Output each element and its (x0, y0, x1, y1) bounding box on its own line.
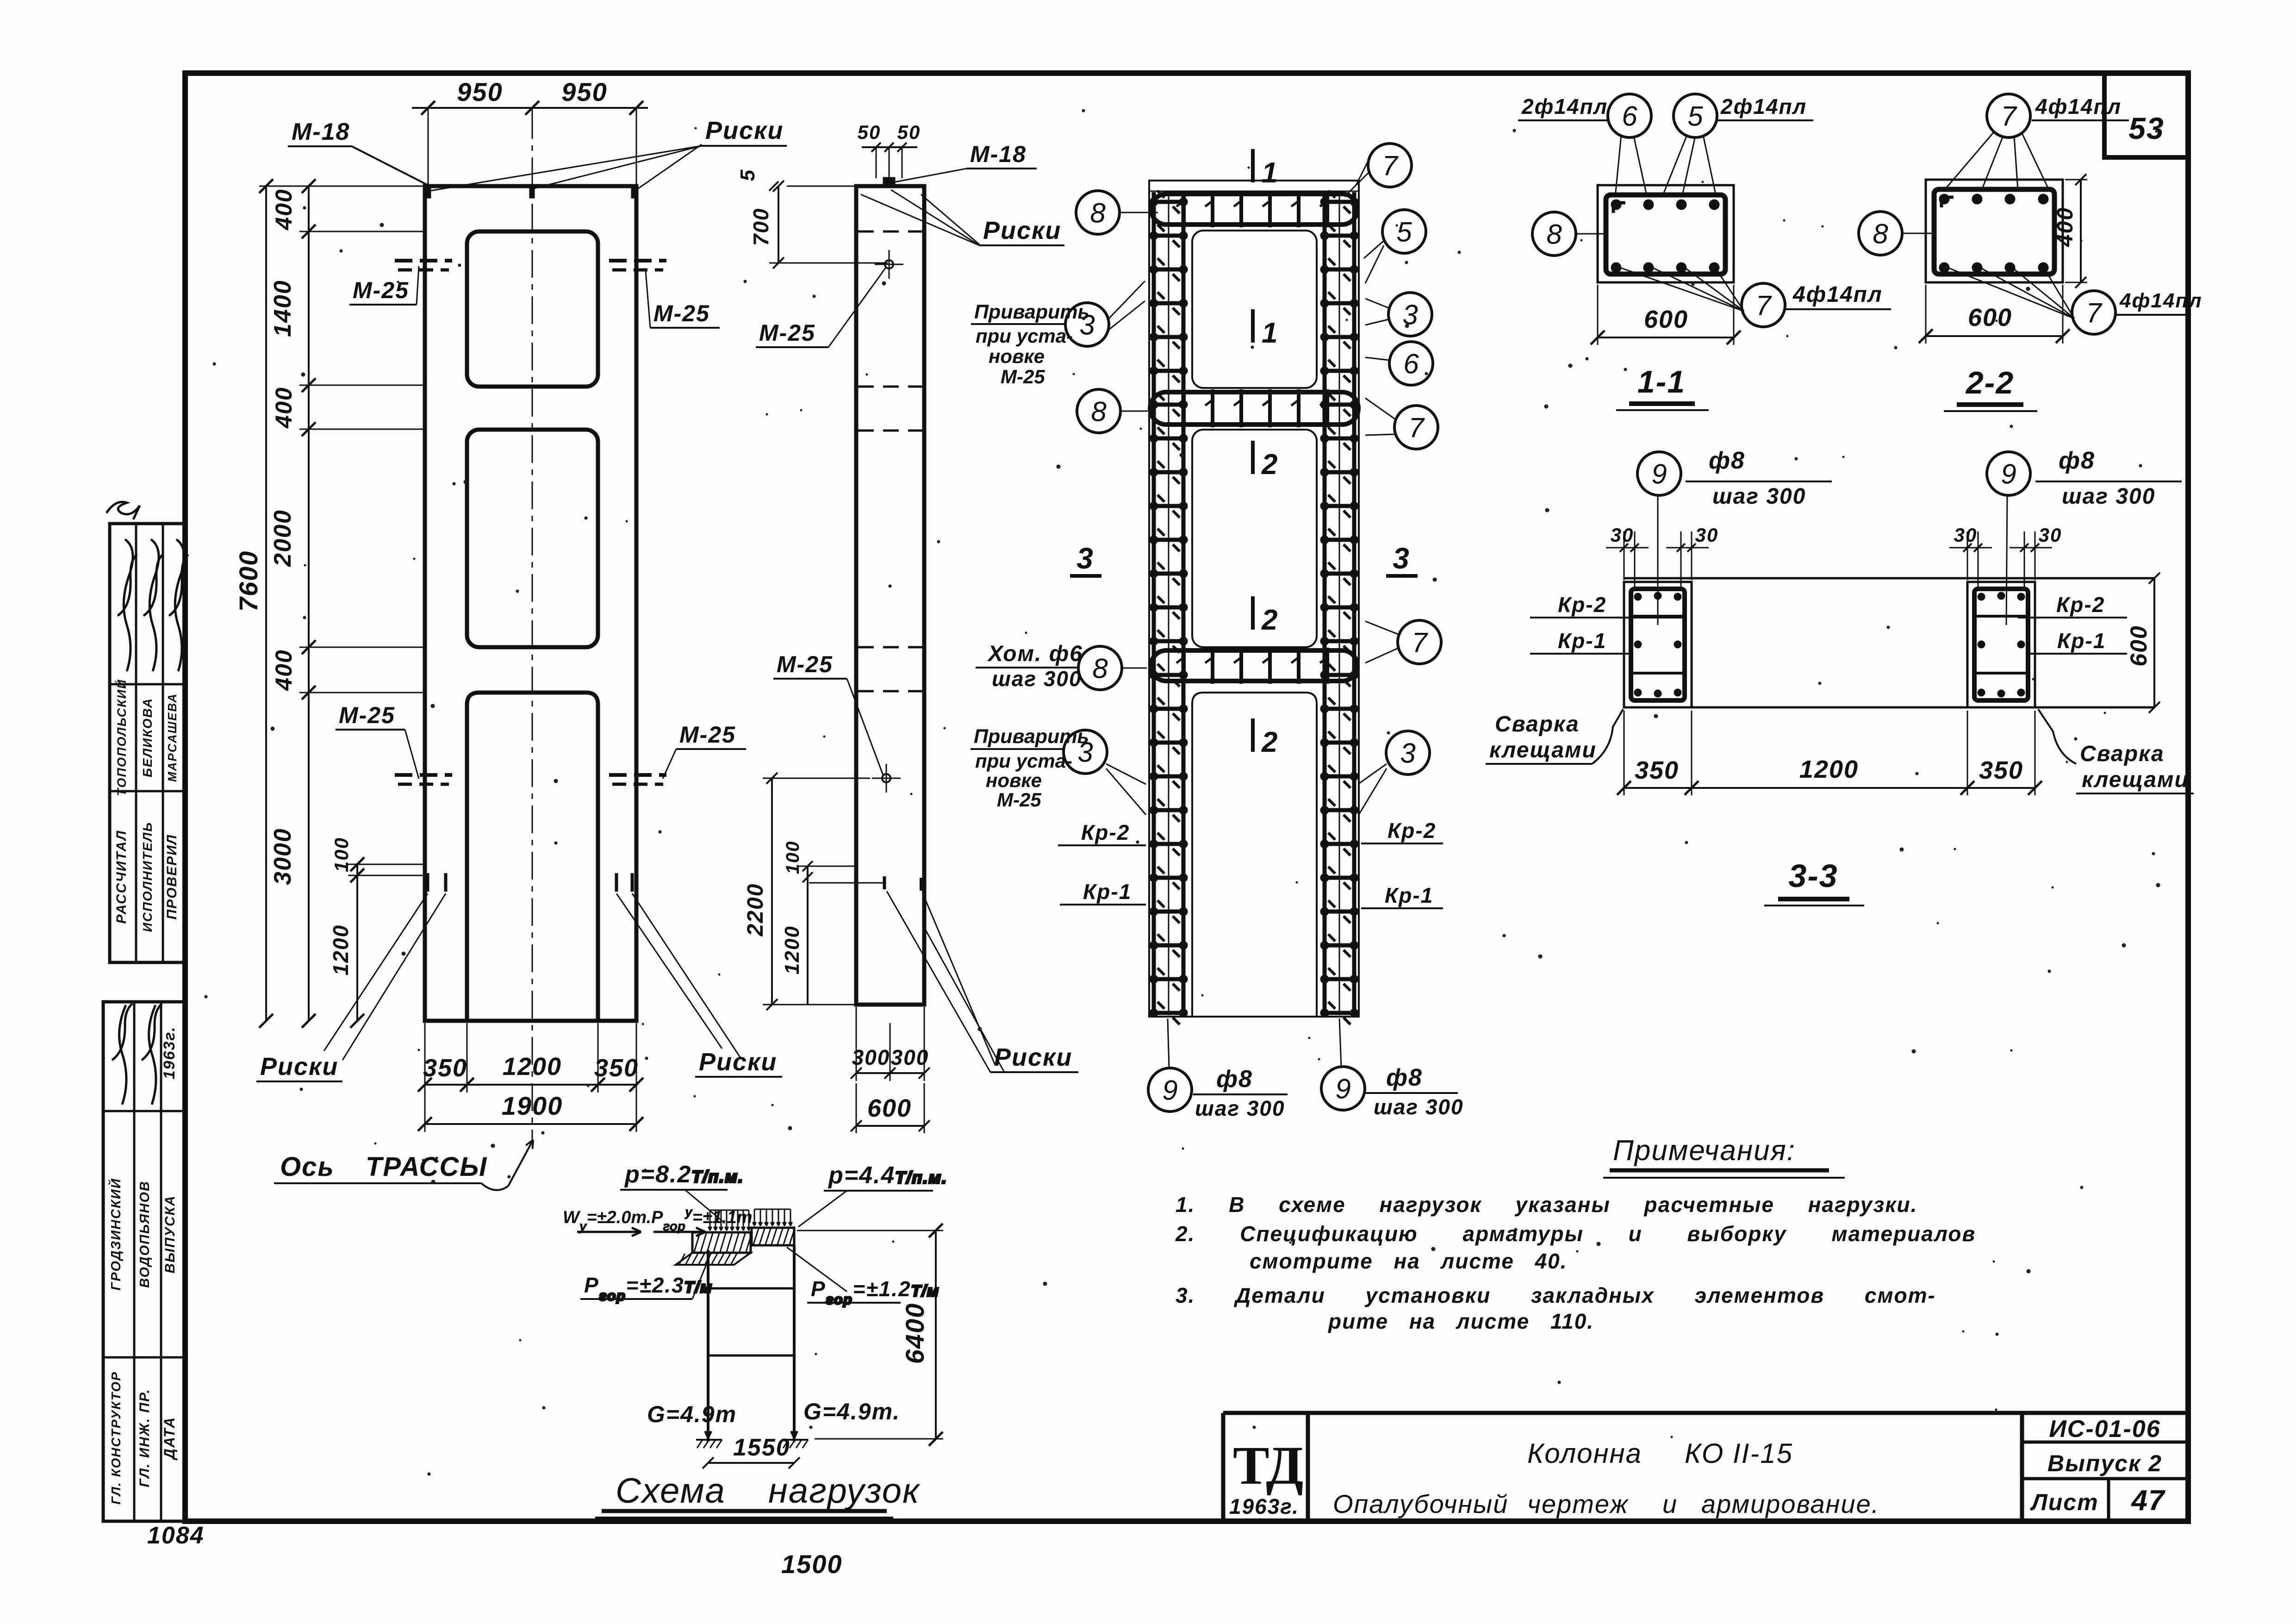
M-25 embed dashes lower (395, 775, 666, 784)
svg-text:350: 350 (423, 1054, 467, 1082)
svg-text:ТОПОПОЛЬСКИЙ: ТОПОПОЛЬСКИЙ (114, 679, 129, 796)
svg-text:Выпуск 2: Выпуск 2 (2047, 1450, 2162, 1476)
side view hidden edge dashes (858, 231, 922, 691)
view mark 3 left (1070, 542, 1101, 576)
svg-text:М-18: М-18 (292, 119, 350, 145)
svg-text:7: 7 (1408, 412, 1425, 443)
dimension 1550 (703, 1434, 800, 1468)
horizontal load arrows (577, 1231, 641, 1233)
callout 7 lower (1398, 620, 1441, 664)
svg-text:6: 6 (1403, 349, 1419, 380)
distributed load arrows left (708, 1210, 750, 1230)
svg-text:1963г.: 1963г. (161, 1026, 178, 1080)
svg-text:Хом. ф6: Хом. ф6 (987, 642, 1083, 666)
svg-text:400: 400 (271, 188, 297, 230)
dimension 30/30 right of 3-3 (1949, 524, 2062, 589)
svg-text:3: 3 (1079, 310, 1095, 341)
svg-text:3: 3 (1076, 542, 1094, 575)
section cut mark 2 upper (1253, 441, 1278, 481)
svg-text:шаг 300: шаг 300 (1195, 1096, 1285, 1120)
svg-text:600: 600 (867, 1094, 912, 1122)
dimension 2200 side (743, 773, 870, 1010)
svg-text:4ф14пл: 4ф14пл (2035, 94, 2122, 119)
svg-text:9: 9 (2001, 459, 2016, 490)
svg-text:7: 7 (1412, 627, 1428, 658)
svg-text:Сварка: Сварка (1495, 712, 1580, 737)
svg-text:М-25: М-25 (777, 651, 833, 677)
section 3-3 left concrete outline (1624, 582, 1692, 707)
svg-text:350: 350 (594, 1054, 639, 1082)
svg-text:новке: новке (989, 345, 1045, 367)
svg-text:ДАТА: ДАТА (161, 1417, 178, 1461)
svg-text:1: 1 (1262, 317, 1278, 349)
section 1-1 rebar dots (1611, 200, 1621, 210)
svg-text:смотрите на листе 40.: смотрите на листе 40. (1250, 1249, 1568, 1273)
svg-text:при уста-: при уста- (975, 750, 1072, 772)
label p=4.4 (798, 1162, 947, 1227)
dimension 6400 (797, 1224, 943, 1446)
cage lower hoop band (1151, 648, 1357, 684)
svg-text:3: 3 (1402, 300, 1418, 331)
svg-text:КО II-15: КО II-15 (1685, 1438, 1793, 1469)
front view centerline (532, 111, 533, 1143)
page number box 53 (2104, 73, 2188, 157)
svg-text:100: 100 (783, 841, 803, 874)
signature scribbles upper (118, 539, 188, 671)
svg-text:53: 53 (2128, 111, 2164, 145)
svg-text:5: 5 (1396, 217, 1412, 248)
svg-text:1500: 1500 (781, 1549, 843, 1579)
svg-text:2ф14пл: 2ф14пл (1521, 94, 1608, 119)
svg-text:Кр-1: Кр-1 (2057, 629, 2106, 653)
front view opening 1 (467, 231, 598, 387)
label Os trassy (274, 1140, 533, 1190)
svg-text:М-25: М-25 (1001, 366, 1045, 387)
label 4f14pl top right (2032, 94, 2129, 120)
svg-text:8: 8 (1090, 198, 1106, 229)
svg-text:600: 600 (1644, 306, 1688, 333)
label 4f14pl of 1-1 (1786, 282, 1891, 309)
svg-text:Примечания:: Примечания: (1613, 1135, 1796, 1167)
svg-text:МАРСАШЕВА: МАРСАШЕВА (165, 693, 179, 782)
svg-text:Риски: Риски (705, 117, 784, 144)
dimension 30/30 left of 3-3 (1606, 524, 1718, 589)
svg-text:ТРАССЫ: ТРАССЫ (366, 1152, 487, 1182)
callout 8 top band (1076, 191, 1120, 234)
svg-text:G=4.9т.: G=4.9т. (803, 1399, 900, 1424)
label Riski top (430, 117, 787, 191)
svg-text:РАССЧИТАЛ: РАССЧИТАЛ (114, 830, 129, 924)
svg-text:шаг 300: шаг 300 (992, 667, 1082, 691)
svg-text:5: 5 (1687, 101, 1703, 132)
pencil scribble top of strip (106, 502, 140, 519)
svg-text:2000: 2000 (269, 509, 296, 567)
svg-text:2: 2 (1261, 726, 1278, 758)
svg-text:М-25: М-25 (759, 320, 815, 346)
svg-text:3. Детали установки закладных: 3. Детали установки закладных элементов … (1176, 1283, 1936, 1307)
svg-text:Колонна: Колонна (1527, 1438, 1642, 1469)
svg-text:6: 6 (1622, 101, 1637, 132)
svg-text:ИС-01-06: ИС-01-06 (2049, 1416, 2160, 1443)
section 1-1 corner hook (1613, 203, 1625, 213)
section 3-3 left rebar dots (1634, 593, 1642, 600)
callout 7 mid (1394, 406, 1438, 449)
dimension 600 of 2-2 (1919, 285, 2070, 344)
callout 7 of 1-1 (1742, 283, 1785, 327)
label Kr-2 left (1058, 820, 1146, 845)
label 4f14pl of 2-2 (2116, 289, 2203, 315)
svg-text:50: 50 (858, 121, 881, 143)
M-18 plate on side view top (883, 177, 895, 187)
callout 7 of 2-2 (2072, 291, 2116, 334)
load scheme column (708, 1245, 794, 1442)
svg-text:700: 700 (749, 208, 773, 246)
section title 3-3 (1764, 858, 1864, 906)
svg-text:7: 7 (1382, 150, 1399, 181)
sheet border frame (185, 73, 2188, 1521)
svg-text:Ось: Ось (280, 1152, 335, 1182)
svg-text:ИСПОЛНИТЕЛЬ: ИСПОЛНИТЕЛЬ (140, 822, 155, 932)
svg-text:G=4.9т: G=4.9т (647, 1401, 737, 1427)
svg-text:клещами: клещами (2082, 768, 2189, 792)
section 3-3 right stirrup (1974, 589, 2028, 700)
svg-text:ПРОВЕРИЛ: ПРОВЕРИЛ (164, 834, 180, 920)
signature strip lower block (103, 1002, 185, 1521)
dimension 300/300 side bottom (851, 1007, 930, 1081)
section 2-2 rebar dots (1939, 194, 1949, 204)
dimension 600 of 1-1 (1591, 285, 1741, 345)
svg-text:400: 400 (271, 387, 297, 428)
label p=8.2 (620, 1161, 744, 1223)
svg-text:Лист: Лист (2030, 1489, 2098, 1515)
dimension 50/50 above side view (858, 121, 921, 178)
callout 8 of 1-1 (1532, 212, 1576, 256)
svg-text:100: 100 (330, 837, 352, 872)
dimension 950/950 top (412, 77, 648, 184)
svg-text:Кр-2: Кр-2 (1081, 820, 1130, 844)
svg-text:30: 30 (1954, 524, 1978, 546)
svg-text:ТД: ТД (1233, 1435, 1303, 1496)
section title 2-2 (1944, 365, 2037, 411)
label Riski side bottom (887, 891, 1078, 1072)
callout 9 left under cage (1168, 1018, 1169, 1068)
svg-text:1550: 1550 (733, 1434, 790, 1461)
callout 5 above 1-1 (1674, 94, 1717, 137)
svg-text:при уста-: при уста- (976, 325, 1073, 347)
svg-text:2200: 2200 (743, 883, 768, 937)
section 1-1 stirrup (1606, 195, 1725, 274)
svg-text:5: 5 (736, 169, 759, 181)
M-25 round marks on side view (885, 260, 893, 269)
dimension 100/1200 bottom left (329, 837, 426, 1028)
svg-text:8: 8 (1091, 396, 1107, 427)
svg-text:2ф14пл: 2ф14пл (1720, 94, 1807, 119)
svg-text:Схема: Схема (616, 1471, 726, 1511)
svg-text:Кр-1: Кр-1 (1083, 880, 1132, 904)
svg-text:4ф14пл: 4ф14пл (1792, 282, 1883, 307)
section 3-3 beam top line (1624, 577, 2154, 580)
load scheme left beam hatched (676, 1232, 752, 1265)
svg-text:1084: 1084 (147, 1522, 205, 1549)
svg-text:М-25: М-25 (997, 789, 1041, 811)
label M-25 side lower (773, 651, 883, 775)
svg-text:1200: 1200 (781, 925, 803, 974)
dimension 600 side bottom (851, 1083, 930, 1133)
svg-text:армирование.: армирование. (1701, 1489, 1879, 1518)
label privarite pri ustanovke M-25 upper (971, 301, 1089, 387)
svg-text:p=8.2Т/п.м.: p=8.2Т/п.м. (624, 1161, 744, 1188)
dimension 100/1200 side (781, 841, 856, 1005)
label Kr-1 right (1361, 883, 1443, 908)
title shema nagruzok (595, 1471, 921, 1518)
svg-text:БЕЛИКОВА: БЕЛИКОВА (140, 698, 155, 777)
svg-text:ВОДОПЬЯНОВ: ВОДОПЬЯНОВ (137, 1181, 152, 1288)
svg-text:Риски: Риски (983, 217, 1061, 244)
section 1-1 concrete outline (1598, 185, 1734, 282)
dimension 700 side (749, 181, 888, 269)
svg-text:30: 30 (2039, 524, 2062, 546)
svg-text:1900: 1900 (502, 1091, 563, 1120)
svg-text:ГРОДЗИНСКИЙ: ГРОДЗИНСКИЙ (107, 1178, 124, 1290)
label M-25 side upper (756, 268, 886, 347)
svg-text:ф8: ф8 (2059, 447, 2095, 474)
svg-text:1-1: 1-1 (1637, 364, 1686, 400)
dimension chain 400/1400/400/2000/400/3000 (259, 179, 424, 1028)
svg-text:2-2: 2-2 (1965, 365, 2014, 400)
label Kr-1 of 3-3 left (1530, 629, 1631, 654)
svg-text:Кр-2: Кр-2 (1558, 593, 1606, 617)
view mark 3 right (1386, 542, 1418, 576)
front view column outline (425, 186, 636, 1021)
svg-text:2. Спецификацию арматуры и выб: 2. Спецификацию арматуры и выборку матер… (1175, 1222, 1976, 1246)
title block frame (1223, 1413, 2188, 1521)
svg-text:p=4.4Т/п.м.: p=4.4Т/п.м. (828, 1162, 947, 1189)
label svarka kleschami left (1486, 709, 1623, 764)
callout 9 left of 3-3 (1637, 452, 1681, 495)
svg-text:50: 50 (897, 121, 921, 143)
side view column outline (856, 186, 924, 1005)
svg-text:Кр-1: Кр-1 (1558, 629, 1606, 653)
label Riski side top (861, 190, 1064, 245)
callout 3 right upper (1388, 293, 1432, 336)
svg-text:Wу=±2.0т.Ргору=±1.1т: Wу=±2.0т.Ргору=±1.1т (563, 1205, 753, 1233)
label svarka kleschami right (2038, 709, 2194, 793)
callout 3 right lower (1386, 731, 1430, 775)
callout 9 right under cage (1339, 1018, 1341, 1067)
section 2-2 corner hook (1941, 197, 1954, 207)
label M-25 upper right (646, 271, 720, 328)
svg-text:Приварить: Приварить (974, 301, 1089, 323)
callout 3 lower left (1064, 730, 1107, 774)
label M-25 lower left (336, 702, 419, 779)
svg-text:М-25: М-25 (339, 702, 395, 728)
svg-text:1200: 1200 (1799, 756, 1859, 783)
dimension 400 of 2-2 (2053, 174, 2087, 288)
section 3-3 right rebar dots (1978, 593, 1985, 600)
svg-text:Риски: Риски (260, 1053, 338, 1081)
svg-text:3: 3 (1400, 738, 1415, 769)
section 3-3 right concrete outline (1967, 582, 2035, 707)
svg-text:2: 2 (1261, 449, 1278, 481)
svg-text:шаг 300: шаг 300 (1374, 1095, 1464, 1119)
riski ticks bottom of front view (428, 873, 632, 892)
dimension 350/1200/350 of 3-3 (1617, 711, 2042, 795)
svg-text:400: 400 (271, 649, 297, 691)
label Pgor 1.2 (787, 1247, 940, 1307)
signature strip upper block (110, 524, 185, 962)
label M-25 lower right (663, 722, 746, 779)
svg-text:ф8: ф8 (1216, 1066, 1253, 1093)
svg-text:9: 9 (1162, 1075, 1177, 1106)
callout 6 (1389, 342, 1433, 385)
callout 8 band3 (1078, 646, 1122, 690)
svg-text:Опалубочный: Опалубочный (1333, 1489, 1508, 1518)
svg-text:9: 9 (1335, 1074, 1350, 1105)
riski marks on top edge (426, 186, 431, 198)
load scheme right beam hatched (752, 1228, 795, 1245)
label Kr-2 of 3-3 left (1530, 593, 1685, 618)
callout 9 right of 3-3 (1987, 452, 2030, 495)
section 3-3 beam bottom line (1624, 706, 2154, 709)
notes title (1603, 1135, 1845, 1178)
svg-text:8: 8 (1873, 219, 1888, 250)
svg-text:М-18: М-18 (970, 141, 1027, 167)
svg-text:ф8: ф8 (1709, 447, 1745, 474)
callout 5 (1382, 210, 1426, 253)
label M-18 front (288, 119, 428, 185)
svg-text:6400: 6400 (900, 1303, 929, 1364)
svg-text:и: и (1662, 1489, 1678, 1518)
front view bottom leg outline (467, 693, 598, 1021)
svg-text:Кр-2: Кр-2 (1388, 818, 1436, 843)
label Kr-2 right (1361, 818, 1443, 843)
label 2f14pl left (1518, 94, 1608, 120)
distributed load arrows right (753, 1209, 792, 1226)
svg-text:М-25: М-25 (653, 300, 710, 326)
svg-text:600: 600 (1968, 304, 2012, 331)
rebar ladder right (1320, 191, 1358, 1024)
dimension 350/1200/350 bottom (418, 1023, 643, 1093)
dimension 7600 left (234, 179, 425, 1028)
dimension 600 of 3-3 (2126, 573, 2160, 713)
svg-text:1200: 1200 (329, 924, 353, 975)
svg-text:ГЛ. КОНСТРУКТОР: ГЛ. КОНСТРУКТОР (109, 1371, 123, 1505)
svg-text:Кр-1: Кр-1 (1385, 883, 1433, 907)
svg-text:3: 3 (1393, 542, 1410, 575)
label M-18 side (895, 141, 1037, 182)
svg-text:8: 8 (1546, 219, 1562, 250)
svg-text:7: 7 (1755, 290, 1772, 321)
svg-text:600: 600 (2126, 625, 2152, 666)
svg-text:М-25: М-25 (353, 277, 409, 303)
svg-text:3: 3 (1077, 737, 1093, 768)
svg-text:3000: 3000 (269, 828, 296, 885)
svg-text:300: 300 (891, 1045, 929, 1069)
svg-text:7: 7 (2086, 298, 2103, 329)
callout 6 above 1-1 (1608, 94, 1651, 137)
callout 8 of 2-2 (1859, 212, 1902, 255)
section 2-2 concrete outline (1926, 180, 2063, 282)
svg-text:30: 30 (1695, 524, 1719, 546)
svg-text:350: 350 (1635, 756, 1679, 784)
svg-text:3-3: 3-3 (1788, 858, 1838, 894)
svg-text:шаг 300: шаг 300 (1712, 484, 1806, 509)
svg-text:950: 950 (457, 77, 503, 106)
load G right (782, 1399, 900, 1448)
load G left (647, 1401, 737, 1448)
TD logo (1229, 1435, 1303, 1518)
svg-text:нагрузок: нагрузок (768, 1471, 921, 1511)
label Riski bottom right of front view (616, 893, 782, 1077)
svg-text:2: 2 (1261, 604, 1278, 636)
dimension 5 top side (736, 169, 857, 191)
dimension 1900 bottom (418, 1023, 643, 1132)
M-25 embed dashes upper (395, 261, 666, 270)
label Kr-1 of 3-3 right (2028, 629, 2127, 654)
label Kr-1 left (1060, 880, 1146, 905)
svg-text:ВЫПУСКА: ВЫПУСКА (162, 1195, 178, 1273)
svg-text:М-25: М-25 (679, 722, 736, 748)
svg-text:новке: новке (986, 769, 1042, 791)
label Riski bottom left (256, 893, 446, 1081)
label Pgor 2.3 (580, 1255, 713, 1304)
cage middle hoop band (1150, 389, 1358, 427)
svg-text:Риски: Риски (699, 1048, 777, 1076)
label privarite pri ustanovke M-25 lower (971, 725, 1089, 811)
svg-text:7: 7 (2001, 101, 2017, 132)
svg-text:Сварка: Сварка (2080, 742, 2165, 766)
svg-text:400: 400 (2053, 207, 2078, 247)
svg-text:клещами: клещами (1489, 738, 1597, 762)
svg-text:ГЛ. ИНЖ. ПР.: ГЛ. ИНЖ. ПР. (137, 1388, 152, 1487)
svg-text:7600: 7600 (234, 550, 263, 612)
callout 8 band2 (1077, 389, 1120, 433)
rebar ladder left (1150, 191, 1188, 1024)
svg-text:950: 950 (561, 77, 607, 106)
signature scribbles lower (112, 1004, 162, 1105)
svg-text:47: 47 (2131, 1485, 2165, 1517)
svg-text:чертеж: чертеж (1527, 1489, 1629, 1518)
svg-text:8: 8 (1092, 653, 1108, 684)
section cut mark 1 in opening 1 (1253, 309, 1278, 349)
svg-text:4ф14пл: 4ф14пл (2119, 289, 2203, 312)
svg-text:1963г.: 1963г. (1229, 1494, 1299, 1518)
svg-text:300: 300 (852, 1045, 890, 1069)
section title 1-1 (1616, 364, 1709, 410)
svg-text:1200: 1200 (503, 1053, 562, 1081)
callout 3 upper left (1065, 303, 1109, 346)
cage concrete outline (1149, 181, 1359, 1017)
section cut mark 2 middle (1253, 596, 1278, 636)
label Kr-2 of 3-3 right (2018, 593, 2127, 618)
callout 7 above 2-2 (1987, 94, 2030, 137)
scan speckles (205, 109, 2165, 1475)
section 3-3 left stirrup (1631, 589, 1685, 700)
svg-text:1: 1 (1262, 157, 1278, 189)
section cut mark 2 lower (1253, 718, 1278, 758)
section 2-2 stirrup (1934, 189, 2054, 274)
riski marks side bottom (809, 876, 921, 891)
label khomut f6 shag 300 (976, 642, 1083, 691)
front view opening 2 (467, 430, 598, 647)
svg-text:Кр-2: Кр-2 (2056, 593, 2105, 617)
svg-text:350: 350 (1979, 756, 2023, 784)
svg-text:30: 30 (1611, 524, 1634, 546)
label M-25 upper left (349, 266, 419, 305)
svg-text:рите на листе 110.: рите на листе 110. (1327, 1309, 1594, 1333)
svg-text:шаг 300: шаг 300 (2062, 484, 2155, 509)
section cut mark 1 top (1253, 149, 1278, 189)
